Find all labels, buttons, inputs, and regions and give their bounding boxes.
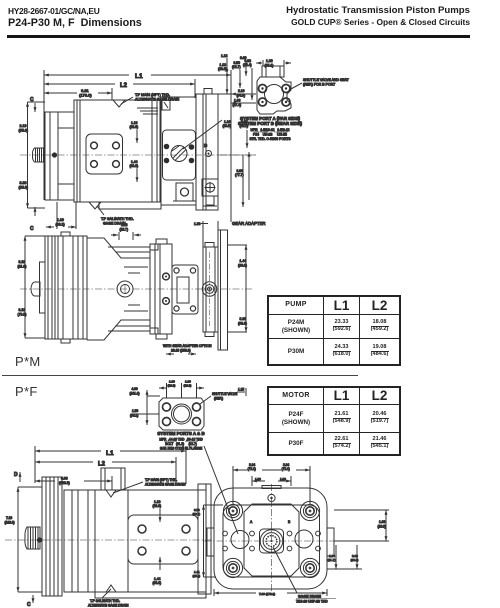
svg-text:P24 UN-2B UN-2B: P24 UN-2B UN-2B — [253, 133, 288, 137]
pump side view P*M : centerline — [20, 154, 256, 156]
svg-text:(89.7): (89.7) — [193, 512, 201, 516]
header right line2 — [100, 17, 470, 27]
header rule — [7, 35, 470, 38]
svg-text:(36.6): (36.6) — [238, 264, 247, 268]
motor dimension table — [268, 387, 400, 455]
pump side view P*M : port B circle — [204, 143, 212, 157]
svg-text:1.13: 1.13 — [221, 54, 228, 58]
motor side view P*F : section mark C bottom — [27, 595, 33, 608]
svg-text:MFR .44-20 THD .50-13 THD: MFR .44-20 THD .50-13 THD — [159, 438, 203, 442]
flange port view : long leader to rear view — [204, 446, 238, 534]
pump side view P*M : section mark C bottom — [30, 207, 35, 232]
rear port view : center bore — [265, 85, 284, 104]
svg-text:ALTERNATE GAGE DRAIN: ALTERNATE GAGE DRAIN — [145, 483, 186, 487]
pump side view P*M : bottom lip — [99, 202, 161, 209]
motor side view P*F : left height dimension — [5, 487, 43, 592]
pump side view P*M : left height dimension — [19, 102, 46, 208]
rear face view : top keyway circle — [268, 494, 275, 501]
flange port view : shuttle leader note — [200, 388, 246, 405]
motor side view P*F : dimension L1 — [35, 446, 186, 484]
rear port view : outline — [257, 66, 291, 114]
svg-text:L2: L2 — [120, 83, 128, 89]
motor side view P*F : rear plate — [198, 484, 211, 594]
gear pump side view : adapter pilot circles — [202, 252, 216, 326]
svg-text:(REF.) FOR B PORT: (REF.) FOR B PORT — [303, 83, 336, 87]
svg-text:3.38: 3.38 — [20, 181, 27, 185]
svg-text:(22.4): (22.4) — [243, 63, 252, 67]
rear face view : corner bolt bosses — [226, 504, 316, 574]
svg-text:10.19 (258.8): 10.19 (258.8) — [171, 349, 191, 353]
rear face view : outer housing outline — [207, 486, 334, 590]
pump side view P*M : bottom valve — [202, 179, 218, 206]
svg-text:(28.7): (28.7) — [120, 228, 129, 232]
svg-text:C: C — [30, 226, 34, 232]
pump side view P*M : inner dimensions — [130, 121, 139, 182]
svg-text:(36.6): (36.6) — [153, 581, 162, 585]
rear port view : system ports caption — [238, 116, 302, 141]
header right line1 — [100, 5, 470, 16]
flange port view : system ports caption — [157, 431, 204, 451]
svg-text:(128.5): (128.5) — [59, 481, 70, 485]
svg-text:7.06 (179.3): 7.06 (179.3) — [259, 592, 275, 596]
gear pump side view : shaft stub — [31, 282, 40, 296]
gear pump side view : left height dimension — [18, 236, 46, 338]
svg-text:C: C — [27, 602, 31, 608]
pump side view P*M : dimension 6.81 — [44, 88, 112, 100]
pump side view P*M : right side small dimensions — [218, 59, 252, 100]
svg-text:SAE J518 CODE 61 FLANGE: SAE J518 CODE 61 FLANGE — [160, 447, 202, 451]
motor side view P*F : bottom leader note — [88, 585, 129, 608]
svg-text:WITH GEAR ADAPTER OPTION: WITH GEAR ADAPTER OPTION — [163, 344, 212, 348]
svg-text:(38.1): (38.1) — [130, 414, 138, 418]
rear face view : centerlines — [204, 484, 340, 596]
svg-text:(54.9): (54.9) — [237, 94, 246, 98]
svg-text:L2: L2 — [98, 462, 106, 468]
header doc number — [8, 6, 99, 16]
pump side view P*M : rear pad bolts — [164, 144, 195, 164]
svg-text:D: D — [14, 472, 18, 478]
svg-text:MFR 1-5/16-12 1-5/8-12: MFR 1-5/16-12 1-5/8-12 — [250, 128, 289, 132]
svg-text:T.P SALINATH THD.: T.P SALINATH THD. — [90, 599, 120, 603]
svg-text:B: B — [204, 143, 208, 148]
svg-text:1.08: 1.08 — [234, 99, 241, 103]
pump side view P*M : right mid dimensions — [218, 120, 256, 207]
svg-text:(35.1): (35.1) — [265, 64, 274, 68]
svg-text:3.19: 3.19 — [19, 260, 26, 264]
pump side view P*M : dimension L1 — [44, 70, 231, 222]
svg-text:(83.3): (83.3) — [351, 558, 359, 562]
pump side view P*M : main housing — [74, 100, 160, 202]
svg-text:SHUTTLE VALVE: SHUTTLE VALVE — [212, 392, 237, 396]
svg-text:7/16-20 UNF-2B THD: 7/16-20 UNF-2B THD — [296, 600, 328, 604]
rear face view : side port circles — [231, 530, 313, 549]
svg-text:T.P MAIN (NPT) THD.: T.P MAIN (NPT) THD. — [135, 93, 170, 97]
svg-text:(72.1): (72.1) — [248, 467, 256, 471]
svg-text:(55.6): (55.6) — [19, 129, 28, 133]
rear face view : inner octagon — [244, 504, 299, 576]
motor side view P*F : inner dimensions — [153, 500, 162, 585]
svg-text:(85.9): (85.9) — [19, 186, 28, 190]
svg-text:(35.8): (35.8) — [193, 574, 201, 578]
rear face view : left dimension — [193, 505, 224, 578]
svg-text:(26.9): (26.9) — [168, 384, 176, 388]
svg-text:4.00: 4.00 — [132, 387, 138, 391]
svg-text:STR. THD. O-RING PORTS: STR. THD. O-RING PORTS — [249, 137, 291, 141]
svg-text:(REF.): (REF.) — [214, 397, 223, 401]
pump side view P*M : section mark C top — [30, 97, 35, 112]
rear face view : center shaft circles — [260, 530, 283, 553]
svg-text:3.88: 3.88 — [240, 317, 247, 321]
svg-text:2.16: 2.16 — [238, 89, 245, 93]
rear face view : inner contour — [223, 505, 320, 577]
svg-text:(41.7): (41.7) — [328, 558, 336, 562]
svg-text:3.13: 3.13 — [19, 308, 26, 312]
svg-text:SHUTTLE VALVE AND SEAT: SHUTTLE VALVE AND SEAT — [303, 78, 350, 82]
svg-text:B: B — [288, 520, 291, 524]
svg-text:(28.6): (28.6) — [218, 67, 227, 71]
section label P*F — [15, 384, 38, 399]
pump dimension table — [268, 296, 400, 365]
rear face view : center boss — [260, 529, 284, 553]
svg-text:(27.4): (27.4) — [233, 103, 242, 107]
gear pump side view : right height dimension — [228, 245, 247, 332]
svg-text:ALTERNATE GAGE DRAIN: ALTERNATE GAGE DRAIN — [88, 604, 129, 608]
pump side view P*M : top weld mark — [113, 100, 125, 107]
rear face view : port letters — [250, 520, 291, 524]
pump side view P*M : leader to gauge port — [183, 120, 222, 149]
gear pump side view : rear block — [150, 239, 172, 339]
pump side view P*M : gauge port circle hatched — [171, 146, 187, 162]
svg-text:1.36: 1.36 — [255, 477, 261, 481]
rear face view : right dimensions — [327, 510, 389, 569]
motor side view P*F : input shaft — [25, 527, 40, 549]
pump side view P*M : rear housing block — [137, 89, 212, 206]
svg-text:1.38: 1.38 — [266, 59, 273, 63]
svg-text:(173.0): (173.0) — [79, 93, 92, 98]
rear port view : left dimensions — [231, 86, 256, 110]
motor side view P*F : main housing — [64, 490, 206, 592]
rear port view : shuttle valve leader note — [289, 78, 350, 90]
svg-text:L1: L1 — [135, 73, 143, 80]
pump side view P*M : bottom bracket — [173, 183, 196, 201]
gear pump side view : front sections — [58, 232, 87, 343]
rear face view : small port circles — [223, 531, 321, 551]
svg-text:1.44: 1.44 — [240, 259, 247, 263]
pump side view P*M : top right leader note — [121, 93, 180, 104]
pump side view P*M : input shaft — [32, 148, 45, 162]
svg-text:(98.6): (98.6) — [238, 322, 247, 326]
svg-text:(77.7): (77.7) — [235, 173, 244, 177]
gear pump side view : tall back plate — [218, 230, 228, 350]
gear pump side view : top small dimensions — [111, 223, 141, 240]
svg-text:(79.5): (79.5) — [18, 313, 27, 317]
motor side view P*F : mounting flange — [42, 477, 62, 596]
svg-text:7.19: 7.19 — [6, 516, 12, 520]
flange port view : top dimensions — [159, 380, 204, 399]
svg-text:(12.7): (12.7) — [232, 65, 241, 69]
svg-text:(72.1): (72.1) — [282, 467, 290, 471]
pump side view P*M : bottom leader note — [89, 202, 134, 226]
svg-text:(28.6): (28.6) — [153, 504, 162, 508]
svg-text:1.30: 1.30 — [194, 222, 201, 226]
svg-text:BOLT (11.2) (12.7): BOLT (11.2) (12.7) — [165, 442, 197, 446]
svg-text:2.19: 2.19 — [20, 124, 27, 128]
svg-text:L1: L1 — [106, 450, 114, 457]
svg-text:ALTERNATE GAGE DRAIN: ALTERNATE GAGE DRAIN — [135, 98, 180, 102]
motor side view P*F : bottom lip — [95, 592, 206, 598]
motor side view P*F : shaft center dot — [37, 537, 42, 542]
svg-text:0.69: 0.69 — [240, 56, 247, 60]
motor side view P*F : centerline — [5, 539, 213, 541]
motor side view P*F : top leader note — [106, 478, 186, 497]
pump side view P*M : dimension L2 — [44, 79, 195, 98]
flange port view : center bore — [172, 404, 192, 424]
pump side view P*M : rear adapter plate — [196, 94, 218, 210]
svg-text:(81.0): (81.0) — [18, 265, 27, 269]
svg-text:GEAR ADAPTER: GEAR ADAPTER — [232, 221, 265, 226]
svg-text:A: A — [250, 520, 253, 524]
svg-text:SYSTEM PORTS A & B: SYSTEM PORTS A & B — [157, 431, 204, 436]
svg-text:1.25: 1.25 — [238, 388, 244, 392]
gear pump side view : bottom note — [163, 344, 212, 354]
motor side view P*F : section mark D — [14, 472, 20, 482]
gear pump side view : rear mounting plate — [163, 265, 198, 314]
rear port view : port bolt circles — [259, 85, 291, 107]
rear port view : top dimensions — [221, 54, 291, 76]
motor side view P*F : top tower — [101, 468, 125, 490]
gear pump side view : front flange — [40, 236, 59, 339]
motor side view P*F : dimension 5.06 — [35, 476, 112, 490]
rear face view : top dimensions — [233, 463, 310, 504]
header title left — [8, 17, 142, 29]
motor side view P*F : dimension L2 — [35, 457, 176, 484]
gear pump side view : tapered cup body — [87, 238, 150, 340]
gear pump side view : centerline — [20, 288, 252, 290]
rear face view : bottom dimension — [214, 589, 327, 596]
svg-text:C: C — [30, 97, 34, 103]
svg-text:T.P SALINATH THD.: T.P SALINATH THD. — [101, 217, 134, 221]
pump side view P*M : mounting flange — [45, 112, 74, 200]
svg-text:(26.9): (26.9) — [378, 525, 386, 529]
svg-text:1.19: 1.19 — [57, 218, 64, 222]
svg-text:(26.9): (26.9) — [184, 384, 192, 388]
flange port view : outline — [159, 398, 204, 430]
pump side view P*M : side mounting pad — [86, 134, 123, 174]
svg-text:1.50: 1.50 — [132, 409, 138, 413]
gear pump side view : gear adapter label — [194, 221, 265, 247]
flange port view : left dimensions — [130, 387, 161, 425]
rear face view : gage drain leader note — [273, 547, 336, 604]
section separator rule — [2, 375, 358, 376]
flange port view : flange bolts — [163, 403, 201, 426]
gear pump side view : gear adapter plate — [203, 243, 218, 337]
gear pump side view : center boss circles — [117, 281, 133, 297]
svg-text:1.36: 1.36 — [280, 477, 286, 481]
svg-text:(29.5): (29.5) — [223, 124, 232, 128]
svg-text:1.06: 1.06 — [379, 520, 385, 524]
pump side view P*M : bottom left small dimension — [46, 202, 76, 229]
svg-text:SYSTEM PORT B (NEAR SIDE): SYSTEM PORT B (NEAR SIDE) — [238, 121, 302, 126]
svg-text:(182.6): (182.6) — [5, 521, 15, 525]
motor side view P*F : side mounting pad — [128, 515, 198, 564]
svg-text:T.P MAIN (NPT) THD.: T.P MAIN (NPT) THD. — [145, 478, 177, 482]
svg-text:(28.6): (28.6) — [130, 125, 139, 129]
section label P*M — [15, 354, 40, 369]
svg-text:(101.6): (101.6) — [130, 392, 140, 396]
svg-text:1.13: 1.13 — [121, 223, 128, 227]
svg-text:(36.6): (36.6) — [130, 164, 139, 168]
pump side view P*M : shaft center dot — [52, 152, 57, 157]
svg-text:GAGE DRAIN: GAGE DRAIN — [298, 595, 321, 599]
